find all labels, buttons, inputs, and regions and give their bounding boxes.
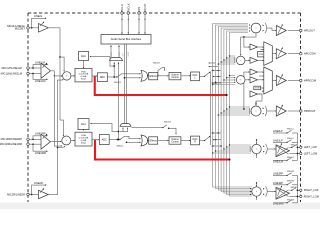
wire dome M2 input right: [123, 127, 128, 131]
amp HPLCOM B: [250, 57, 258, 63]
wire HPROUT to HPRCOM amp A: [243, 71, 250, 109]
wire MIC2R input: [29, 194, 38, 196]
svg-text:HPLCOM: HPLCOM: [304, 52, 316, 56]
dac mux L: [141, 70, 148, 81]
pin HPRCOM: [300, 78, 317, 82]
highlighted path PGA-L to output bus (red): [95, 76, 228, 96]
mixer HPROUT sum: [251, 106, 261, 116]
wire mixer to PGA R: [71, 140, 75, 141]
wire to RIGHT_LO driver: [268, 191, 277, 192]
wire ADC-R to AGC-R: [90, 123, 119, 132]
amp HPLCOM A: [250, 44, 258, 50]
wire AGC-R to PGA-R: [83, 129, 84, 131]
svg-text:MIC2R/LINE2R: MIC2R/LINE2R: [7, 192, 25, 196]
bus taps to LEFT_LO mixer: [212, 144, 251, 153]
wire LEFT_LO switch column: [297, 133, 299, 160]
svg-text:SW-D3: SW-D3: [117, 146, 125, 148]
pin WCLK: [126, 3, 130, 34]
net LINE1LP switch SW-L1: [273, 138, 298, 143]
svg-text:SW-L1: SW-L1: [287, 138, 294, 140]
wire to LEFT_LO driver: [268, 148, 277, 149]
mixer HPLCOM sum: [236, 56, 245, 65]
wire to HPLCOM amp A: [244, 37, 250, 48]
svg-text:LINE1RP: LINE1RP: [273, 182, 283, 185]
highlighted path PGA-R to output bus (red): [95, 140, 231, 161]
svg-text:0/+59.5dB: 0/+59.5dB: [79, 74, 89, 76]
chip boundary (dashed): [28, 13, 301, 202]
svg-text:Volume: Volume: [171, 75, 179, 77]
switch SW-D4: [132, 122, 177, 135]
volume control L: [169, 72, 181, 79]
mixer right PGA input: [62, 136, 71, 145]
svg-text:LINE2R: LINE2R: [34, 182, 43, 185]
wire ADC-L to record mux: [114, 62, 115, 77]
svg-text:WCLK: WCLK: [126, 3, 130, 11]
wire RIGHT_LO driver M output: [290, 195, 300, 197]
bus arrows into RIGHT_LO mixer: [250, 188, 252, 195]
wire LINE1L to right mixer: [54, 76, 62, 147]
wire amp to HPROUT pin: [288, 110, 300, 112]
svg-text:LINE1RM: LINE1RM: [35, 152, 46, 155]
svg-text:LINE1LP: LINE1LP: [35, 61, 45, 64]
wire mux to effects L: [147, 75, 149, 76]
wire record R to ASBI: [118, 45, 121, 57]
svg-text:MICDET: MICDET: [15, 27, 25, 31]
agc L: [79, 52, 89, 61]
mixer HPRCOM sum: [236, 76, 245, 85]
wire LINE3L buffer output: [48, 28, 61, 120]
wire MIC3 input: [29, 27, 38, 29]
wire HPRCOM mux to amp: [272, 80, 276, 81]
wire DAC-R to output bus: [212, 132, 222, 147]
pin LEFT_LOP: [300, 145, 317, 149]
wire SW-D1 to DAC mux L: [122, 73, 141, 74]
svg-text:HPROUT: HPROUT: [304, 109, 316, 113]
svg-text:ADC: ADC: [100, 76, 105, 79]
volume RIGHT_LO: [263, 186, 267, 197]
amp HPRCOM A: [250, 69, 258, 75]
pin MIC2R/LINE2R: [7, 192, 29, 196]
wire HPLCOM mux to amp: [272, 53, 276, 54]
volume HPROUT: [263, 106, 267, 117]
switch SW-R3: [290, 187, 300, 191]
svg-text:MIC1LM/LINE1LM: MIC1LM/LINE1LM: [1, 71, 22, 75]
net LINE1RP switch SW-R1: [273, 180, 298, 185]
svg-text:RIGHT_LOM: RIGHT_LOM: [304, 194, 319, 198]
switch SW-D2: [153, 63, 165, 77]
net LINE2R: [32, 182, 47, 195]
pin DIN: [137, 7, 141, 35]
wire DAC-L to output bus: [209, 62, 222, 83]
playback dome mux M2: [120, 124, 131, 127]
wire LEFT_LO driver M output: [290, 153, 300, 155]
svg-text:MIC1LP/LINE1LP: MIC1LP/LINE1LP: [2, 66, 23, 70]
bus taps to HPRCOM mixer: [212, 75, 236, 85]
switch SW-L4 net LINE1LM: [273, 157, 298, 164]
amp HPRCOM C: [250, 91, 258, 97]
wire HPRCOM mux inputs: [258, 71, 264, 94]
svg-text:LINE1RM: LINE1RM: [273, 203, 283, 206]
switch SW-L3: [290, 145, 300, 148]
adc R: [99, 135, 109, 145]
wire mixer to PGA L: [71, 75, 75, 76]
bus taps to HPLCOM mixer: [218, 55, 236, 64]
wire LINE3L to left PGA mixer: [60, 57, 65, 72]
wire volume to DAC R: [181, 140, 191, 141]
vcm R box: [254, 86, 261, 90]
adc L: [97, 73, 107, 82]
svg-text:ADC: ADC: [102, 138, 107, 141]
svg-text:MIC1RP/LINE1RP: MIC1RP/LINE1RP: [1, 137, 23, 141]
net LINE1RM: [33, 144, 48, 155]
volume control R: [169, 137, 181, 144]
pin MIC1RM/LINE1RM: [0, 142, 29, 146]
svg-text:LEFT_LOM: LEFT_LOM: [304, 151, 317, 155]
wire into RIGHT_LO mixer top: [256, 182, 257, 187]
pin HPROUT: [300, 109, 316, 113]
wire ADC-L output: [107, 76, 117, 78]
driver LEFT_LO: [276, 143, 290, 157]
wire amp to HPRCOM pin: [288, 80, 300, 82]
wire HPLCOM mux inputs: [258, 46, 264, 61]
net LINE1RP: [33, 133, 48, 140]
wire HPLOUT to HPLCOM section: [240, 33, 256, 56]
dac R: [191, 136, 200, 145]
svg-text:0.5dB: 0.5dB: [81, 140, 87, 142]
wire DIN left: [122, 44, 124, 124]
wire ADC-L to AGC-L: [90, 56, 116, 67]
svg-text:VCM: VCM: [258, 54, 263, 56]
mux HPLCOM: [264, 42, 273, 66]
pin HPLCOM: [300, 52, 317, 56]
wire effects to volume R: [158, 140, 169, 141]
net LINE1LM: [33, 74, 48, 83]
mixer LEFT_LO sum: [252, 144, 261, 153]
wire mux to effects R: [147, 140, 149, 141]
amp HPROUT driver: [276, 104, 286, 116]
net LINE2RP switch SW-R2: [273, 171, 298, 176]
wire PGA-L to ADC-L: [92, 75, 97, 76]
svg-text:LINE1LP: LINE1LP: [273, 139, 283, 142]
switch SW-D3: [117, 136, 125, 147]
volume HPLOUT: [263, 23, 267, 34]
svg-text:HPLOUT: HPLOUT: [304, 28, 315, 32]
pin LEFT_LOM: [300, 151, 318, 155]
pin MIC1LM/LINE1LM: [1, 71, 30, 75]
svg-text:DOUT: DOUT: [143, 3, 147, 11]
net LINE2LP switch SW-L2: [273, 129, 298, 134]
amp HPRCOM driver: [276, 74, 286, 86]
svg-text:SW-D2: SW-D2: [153, 63, 161, 65]
pin BCLK: [120, 4, 124, 34]
svg-text:LINE1LM: LINE1LM: [35, 80, 45, 83]
svg-text:HPRCOM: HPRCOM: [304, 78, 317, 82]
pin HPLOUT: [300, 28, 316, 32]
wire ADC-R to record mux: [118, 62, 120, 140]
wire into RIGHT_LO mixer bottom: [256, 196, 257, 200]
svg-text:SW-D1: SW-D1: [114, 82, 122, 84]
effects R: [149, 137, 158, 144]
amp HPLOUT driver: [276, 24, 286, 36]
wire ADC-R output: [109, 139, 118, 141]
volume LEFT_LO: [263, 144, 267, 155]
bus taps to HPROUT mixer: [218, 106, 251, 115]
svg-text:0/+59.5dB: 0/+59.5dB: [79, 138, 89, 140]
mixer left PGA input: [63, 72, 71, 80]
mixer RIGHT_LO sum: [252, 187, 261, 196]
driver RIGHT_LO: [276, 185, 290, 199]
wire LINE2R to right mixer bottom: [58, 145, 66, 147]
vcm L box: [258, 52, 264, 57]
wire LINE3L to right PGA mixer: [60, 120, 64, 137]
svg-text:SW-D4: SW-D4: [164, 122, 172, 124]
svg-text:LINE1RP: LINE1RP: [35, 133, 46, 136]
wire dome M2 input left: [120, 127, 124, 131]
pin RIGHT_LOP: [300, 188, 319, 192]
pga L: [75, 68, 92, 82]
wire amp to HPLOUT pin: [288, 30, 300, 32]
wire LINE2R buffer output: [48, 79, 64, 195]
net LINE1LP: [33, 61, 48, 68]
pin DOUT: [143, 3, 147, 34]
analog output bus verticals: [213, 24, 252, 197]
svg-text:MIC1RM/LINE1RM: MIC1RM/LINE1RM: [0, 142, 22, 146]
switch DAC-L routing: [200, 71, 211, 77]
page footer strip: [0, 203, 320, 210]
wire DAC routing bus vertical: [210, 72, 212, 146]
svg-text:VCM: VCM: [255, 88, 260, 90]
mux HPRCOM: [264, 67, 273, 94]
wire LINE1R to right mixer: [51, 141, 62, 142]
amp LINE1R input buffer: [41, 133, 51, 149]
svg-text:Audio Serial Bus Interface: Audio Serial Bus Interface: [111, 37, 142, 41]
wire MIC1L inputs: [29, 67, 41, 74]
wire DIN right: [127, 44, 130, 124]
switch SW-D1: [114, 74, 122, 84]
pin MIC1RP/LINE1RP: [1, 137, 30, 141]
pin RIGHT_LOM: [300, 194, 319, 198]
wire HPRCOM C to HPROUT mixer: [255, 94, 262, 106]
agc R: [78, 119, 89, 130]
switch SW-R4 net LINE1RM: [273, 200, 298, 206]
svg-text:LINE1LM: LINE1LM: [273, 161, 283, 164]
pin MIC1LP/LINE1LP: [2, 66, 30, 70]
wire DIN tap to DAC mux L: [124, 77, 141, 79]
wire mixer to HPLCOM amp B: [245, 60, 250, 61]
amp HPLCOM driver: [276, 47, 286, 59]
audio serial bus interface U-ASBI: [101, 35, 151, 45]
effects L: [149, 72, 158, 79]
mixer HPLOUT sum: [251, 23, 261, 33]
net LINE2L: [32, 15, 47, 28]
wire into LEFT_LO mixer top: [256, 139, 257, 144]
switch DAC-R routing: [200, 135, 211, 141]
pga R: [75, 132, 92, 146]
wire to HPLOUT amp: [267, 28, 276, 31]
svg-text:SW-L2: SW-L2: [287, 129, 294, 131]
amp LINE2R input buffer: [39, 188, 49, 199]
wire AGC-L to PGA-L: [83, 61, 84, 69]
dac mux R: [141, 135, 148, 146]
wire volume to DAC L: [181, 75, 191, 76]
wire to HPROUT amp: [267, 110, 276, 111]
record mux M1: [110, 58, 123, 61]
svg-text:RIGHT_LOP: RIGHT_LOP: [304, 188, 319, 192]
svg-text:Volume: Volume: [171, 139, 179, 141]
amp LINE1L input buffer: [41, 62, 51, 78]
wire MIC1R inputs: [29, 138, 41, 145]
pin MIC3L/LINE3L/MICDET: [7, 24, 29, 31]
wire into LEFT_LO mixer bottom: [256, 154, 257, 158]
svg-text:DOUT: DOUT: [128, 52, 130, 57]
wire mixer to HPRCOM amp B: [245, 79, 250, 80]
wire effects to volume L: [158, 75, 169, 76]
svg-text:DIN: DIN: [137, 7, 141, 12]
wire record L to ASBI: [110, 45, 113, 57]
dac L: [191, 72, 200, 81]
wire RIGHT_LO switch column: [297, 176, 299, 203]
wire SW-D3 to DAC mux R: [125, 136, 142, 139]
svg-text:BCLK: BCLK: [120, 4, 124, 11]
amp LINE2L input buffer: [39, 21, 49, 32]
svg-text:0.5dB: 0.5dB: [81, 76, 87, 78]
amp HPRCOM B: [250, 77, 258, 83]
bus arrows into HPLOUT mixer: [249, 24, 251, 31]
svg-text:LINE2L: LINE2L: [34, 15, 43, 18]
svg-text:LEFT_LOP: LEFT_LOP: [304, 145, 317, 149]
wire LINE1L to left mixer: [51, 71, 63, 77]
wire DIN tap to DAC mux R: [126, 141, 141, 143]
wire PGA-R to ADC-R: [92, 139, 99, 140]
wire amp to HPLCOM pin: [288, 53, 300, 55]
